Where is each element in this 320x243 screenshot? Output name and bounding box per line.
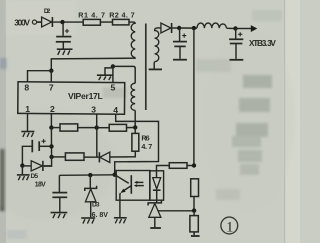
node: C3 right junction [49,144,53,148]
svg-text:8: 8 [24,82,29,92]
ground (D3) [81,218,95,224]
diode D1 secondary rectifier [158,23,180,33]
svg-text:1: 1 [25,104,30,114]
resistor R1 [83,19,100,25]
output arrow XT [236,25,258,32]
ground (pin 1) [21,114,34,137]
node: pin 2 junction [49,125,53,129]
resistor R6 [132,133,139,151]
svg-text:18V: 18V [35,182,46,189]
ground bar (secondary return) [149,68,162,70]
wire pin5 junction to auxiliary winding [113,66,135,83]
wire aux node into R6 [134,127,136,133]
node: auxiliary feedback junction [133,125,137,129]
wire R1 to R2 [100,21,112,23]
wire R3 to pin 3 node [78,127,97,129]
wire R2 to transformer primary [129,22,135,24]
svg-text:7: 7 [49,82,54,92]
wire secondary bottom to ground bar [153,62,155,69]
wire R7 right lead [187,165,194,167]
transformer T1 core [145,24,147,111]
capacitor C3 (polarized, horizontal) [22,139,51,166]
optocoupler LED diode [153,178,161,203]
resistor R4 [109,124,126,131]
svg-text:D3: D3 [92,202,100,209]
node: pin2 column / R5 junction [49,155,53,159]
diode D4 [84,152,110,162]
node: rectifier output junction [177,26,181,30]
node: optocoupler collector junction [113,173,117,177]
svg-text:300V: 300V [14,17,30,27]
wire R6 bottom to D4 wire [110,151,136,157]
resistor R9 (lower divider) [190,211,198,236]
wire pin 4 to divider [115,114,159,175]
node: D3 junction [88,173,92,177]
svg-text:5: 5 [111,82,116,92]
optocoupler U2 box [116,171,150,201]
wire feedback mid rail [59,174,114,177]
wire pin2 node to R3 [51,127,60,129]
wire pin5 junction to ground [105,68,113,75]
node: D5 anode junction [20,163,24,167]
zener D6 (lower feedback) [148,200,161,227]
svg-text:4. 7: 4. 7 [141,142,152,151]
wire pin3 node down to D4 cathode [96,128,98,157]
ground (D5 anode) [17,166,30,181]
transformer T1 secondary winding [155,28,159,62]
op IC U1 VIPer17L box [18,82,125,114]
transformer T1 primary winding [131,23,135,57]
node: pin 5 junction [111,64,115,68]
ground (optocoupler emitter) [114,218,127,224]
node: drain junction (pins 7/8) [49,69,53,73]
svg-text:4: 4 [113,105,118,115]
resistor R3 [60,124,78,131]
node: pin 3 junction [95,125,99,129]
svg-text:R1 4. 7: R1 4. 7 [78,10,105,19]
wire input to D2 [37,21,42,23]
diode D2 [37,17,63,27]
wire R4 to aux node [127,127,136,129]
resistor R5 [65,153,84,160]
optocoupler LED light arrows [134,181,144,187]
transformer T1 auxiliary winding [131,83,135,110]
wire primary bottom to drain node [51,58,135,71]
ground (pin 5) [97,75,113,80]
optocoupler LED box [150,171,164,200]
node: lower divider junction [192,208,196,212]
resistor R2 [113,19,130,25]
wire pin 8 to drain junction [28,71,52,83]
wire aux winding to feedback node [134,110,136,127]
wire R7 left lead into LED box [157,166,170,178]
svg-text:XTB3. 3V: XTB3. 3V [249,39,276,48]
wire pin 2 stub [50,114,52,128]
ground (primary, below C1) [57,49,73,55]
optocoupler phototransistor [115,175,131,217]
resistor R8 (upper divider) [191,179,199,197]
ground bar (below R9) [191,235,200,237]
wire R5 to pin2 column [52,156,66,158]
svg-text:D5: D5 [31,173,39,180]
input terminal 300V [32,20,36,24]
ground bar (below C6) [230,59,244,61]
capacitor C1 (input bulk, polarized) [56,22,72,49]
capacitor C5 (output filter 1, polarized) [173,28,187,59]
wire inductor to output [227,27,236,29]
wire D6 to divider node [158,210,194,212]
inductor L1 [197,23,226,28]
svg-text:2: 2 [50,104,55,114]
wire pin 5 stub [112,66,114,82]
wire pin2 column down [44,128,52,167]
resistor R7 (horizontal feedback) [169,163,187,169]
ground bar (below D6) [150,227,161,229]
node: LC rail junction [192,26,196,30]
wire pin 7 stub [50,71,52,83]
svg-text:3: 3 [91,104,96,114]
svg-text:VIPer17L: VIPer17L [68,91,103,101]
capacitor C4 [52,175,67,212]
figure number 1 in circle [221,217,238,235]
svg-text:1: 1 [226,219,234,235]
svg-text:D2: D2 [44,8,51,15]
wire pin3 node to R4 [97,127,110,129]
capacitor C6 (output filter 2, polarized) [229,29,243,59]
ground bar (below C5) [173,59,187,61]
wire junction to inductor [179,27,197,29]
node: output junction [233,26,237,30]
wire feedback rail (secondary junction down) [193,28,195,165]
wire D2 junction to R1 [63,21,84,23]
wire pin 3 stub [96,114,98,128]
node: upper divider junction [192,163,196,167]
diode D3 zener [85,175,97,217]
diode D5 zener [22,161,51,171]
wire R8 to lower node [193,197,195,211]
ground (below C4) [51,213,68,219]
svg-text:R2 4. 7: R2 4. 7 [109,10,134,19]
node: D2 cathode junction [60,20,64,24]
